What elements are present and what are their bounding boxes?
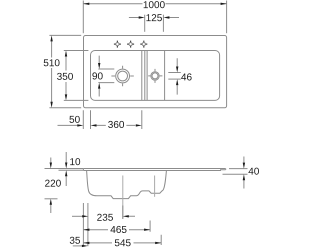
section: rim top line [84,168,225,170]
arrow 350 bottom [65,94,67,100]
dim 10/220: witness at rim top extending left [45,168,84,170]
small drain outer circle (plan) [151,72,159,80]
section: main drain centerline [122,176,124,219]
divider wall line 1 (plan) [144,51,146,101]
arrow 46 top (down) [176,67,178,73]
dim 235: right arrow stem and tick [123,206,135,220]
dim 10: witness bottom [59,169,84,171]
arrow 465 left [83,229,89,231]
arrow 1000 left [83,3,89,5]
arrow 220 bottom (up) [50,199,52,205]
dim 220: arrow stems [50,158,52,214]
arrow 40 bottom (up) [243,174,245,180]
dim 40: arrow stems [243,157,245,189]
dim 10: arrow stems [65,152,67,186]
arrow 350 top [65,51,67,57]
arrow 125 left (outside, pointing right) [139,16,145,18]
arrow 40 top (down) [243,163,245,169]
section: bowl profile [87,171,167,199]
section: small drain centerline [154,176,156,197]
label 350 [57,73,73,80]
arrow 10 top (down) [65,163,67,169]
dim 46: tick top [168,72,181,74]
label 1000 [144,1,165,8]
dim 50: dimension line [58,124,79,126]
arrow 35 (pointing right at x=87.9) [82,245,88,247]
dim 40: witness top [229,168,248,170]
small drain inner circle (plan) [152,73,158,79]
dim 90: tick bottom [98,82,114,84]
arrow 90 bottom (up) [98,83,100,89]
dim 510: dimension line [51,41,53,103]
arrow 545 left [83,242,89,244]
dim 350: dimension line [65,56,67,96]
arrow 510 bottom [50,102,52,108]
small bowl right edge (plan) [164,51,166,100]
dim 235: left arrow stem [72,215,83,217]
dim 510: witness top [49,34,81,36]
label 510 [44,59,60,66]
label 545 [115,239,131,246]
label 50 [69,116,79,123]
bowl recess (plan view) [91,51,220,101]
section: rim left end cap [82,169,85,171]
label 40 [248,168,259,175]
dim 46: tick bottom [168,78,181,80]
label 465 [110,226,126,233]
dim 46: arrow stems [176,58,178,94]
arrow 46 bottom (up) [176,79,178,85]
dim 360: dimension line [97,124,136,126]
arrow 510 top [50,35,52,41]
dim 510: witness bottom [49,107,81,109]
main drain outer circle (plan) [116,69,130,83]
arrow 220 top (down) [50,163,52,169]
sink outer rim (plan view) [84,36,227,108]
label 90 [92,72,102,79]
dim 1000: witness line left [82,1,84,34]
divider wall line 2 (plan) [146,51,148,101]
dim 1000: dimension line [83,3,226,5]
arrow 10 bottom (up) [65,170,67,176]
dim 350: witness bottom [64,99,89,101]
dim 1000: witness line right [226,1,228,34]
main drain inner circle (plan) [118,71,128,81]
dim 90: arrow stems [98,56,100,97]
arrow 235 right (pointing left at CL) [123,215,129,217]
tap hole symbol 3 [140,41,147,48]
dim 50/360: witness lines below plan [83,110,142,129]
arrow 235 left (pointing right at x=88) [82,215,88,217]
tap hole symbol 2 [127,41,134,48]
section: rim underside tapering line [84,169,225,172]
label 235 [97,214,113,221]
arrow 545 right [155,242,161,244]
arrow 465 right [144,229,150,231]
small drain crosshair ticks [148,69,162,83]
arrow 90 top (down) [98,63,100,69]
dim 35: dimension line [73,245,83,247]
label 125 [146,14,162,21]
label 10 [70,158,80,165]
label 220 [45,180,61,187]
label 35 [70,237,80,244]
dim 125: arrow stems [129,17,179,19]
main drain crosshair ticks [111,66,133,87]
dimension texts (as vector paths, Liberation Sans 10px) [44,1,259,246]
arrowheads (dark) [50,3,246,248]
dim 125: witness line right [162,15,164,32]
tap hole symbol 1 [114,41,121,48]
dim 125: witness line left [144,15,146,32]
label 46 [181,73,191,80]
main bowl right edge (plan) [141,51,143,100]
arrow 50 (pointing right at x=83.4) [77,124,83,126]
label 360 [108,121,124,128]
dim 545: dimension line [83,242,161,244]
dim 220: witness bottom [45,198,58,200]
arrow 125 right (outside, pointing left) [163,16,169,18]
dim 40: witness bottom [223,173,248,175]
arrow 1000 right [221,3,227,5]
witness lines below section [83,203,161,246]
dim 465: dimension line [83,229,150,231]
dim 90: tick top [98,68,114,70]
arrow 360 left [91,124,97,126]
dim 350: witness top [64,50,89,52]
arrow 360 right [136,124,142,126]
section: rim right tip cap [224,169,227,170]
